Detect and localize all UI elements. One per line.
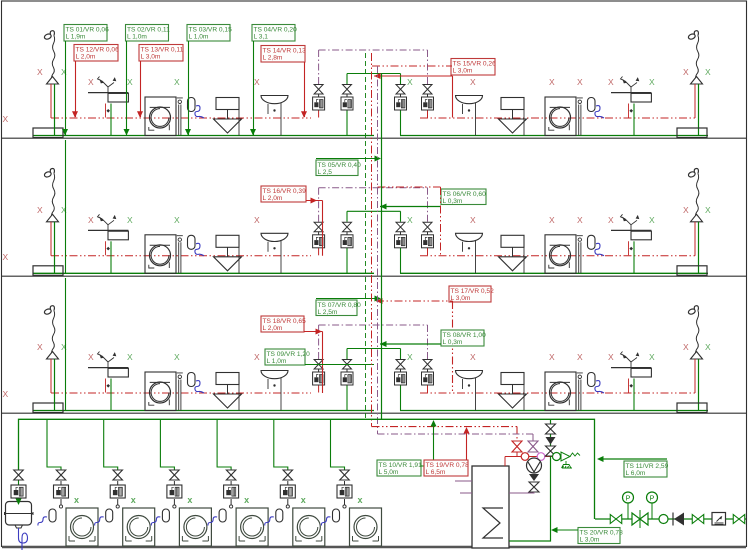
svg-text:x: x — [187, 495, 192, 505]
svg-text:X: X — [37, 342, 43, 352]
svg-text:L 5,0m: L 5,0m — [379, 469, 399, 476]
svg-text:L 6,0m: L 6,0m — [626, 470, 646, 477]
svg-text:X: X — [705, 342, 711, 352]
bathtub floor 2 right — [677, 266, 707, 276]
basement shut-off valve 4 — [226, 470, 236, 480]
basement water meter 6 — [337, 485, 352, 498]
hot water line floor 1 left (dash-dot) — [51, 117, 311, 119]
shut-off valve with water meter floor 1 right B — [422, 85, 434, 111]
valve below pump — [529, 482, 539, 492]
basement trap 2 — [106, 509, 113, 522]
basement washing machine 3 — [179, 508, 211, 546]
svg-text:X: X — [608, 215, 614, 225]
svg-text:L 2,0m: L 2,0m — [263, 325, 283, 332]
basement branch pipe 3 — [160, 419, 174, 470]
pressure gauge 1 — [627, 503, 629, 519]
basement trap 3 — [162, 509, 169, 522]
svg-text:L 1,9m: L 1,9m — [66, 34, 86, 41]
riser drop floor 3 left — [65, 278, 67, 410]
pump header line — [505, 456, 561, 458]
svg-text:X: X — [254, 215, 260, 225]
svg-text:x: x — [244, 495, 249, 505]
washing machine floor 1 right — [545, 97, 583, 136]
washing machine floor 3 left — [145, 372, 183, 411]
svg-text:TS 16/VR 0,39: TS 16/VR 0,39 — [263, 188, 307, 195]
supply shut-off valve 2 — [692, 515, 704, 524]
svg-text:X: X — [174, 352, 180, 362]
svg-text:X: X — [254, 352, 260, 362]
bathtub floor 1 left — [33, 128, 63, 138]
sink with tap floor 2 left — [88, 214, 128, 273]
svg-text:X: X — [61, 342, 67, 352]
main water meter — [712, 513, 726, 526]
basement shut-off valve 2 — [113, 470, 123, 480]
svg-text:TS 03/VR 0,15: TS 03/VR 0,15 — [189, 26, 233, 33]
label TS 20 — [578, 528, 620, 544]
svg-text:L 0,3m: L 0,3m — [443, 198, 463, 205]
svg-text:TS 05/VR 0,40: TS 05/VR 0,40 — [318, 162, 362, 169]
supply shut-off valve 3 — [733, 515, 745, 524]
washing machine floor 1 left — [145, 97, 183, 136]
label TS 07 — [316, 300, 357, 316]
label TS 01 — [64, 25, 107, 42]
svg-text:X: X — [3, 114, 9, 124]
washing machine floor 2 right — [545, 235, 583, 273]
hot water line floor 3 left (dash-dot) — [51, 392, 311, 394]
svg-text:TS 09/VR 1,20: TS 09/VR 1,20 — [267, 351, 311, 358]
cold water riser (dashed) — [365, 53, 367, 419]
WC floor 2 right — [499, 235, 527, 273]
svg-text:L 2,8m: L 2,8m — [263, 55, 283, 62]
basement trap 4 — [219, 509, 226, 522]
svg-text:P: P — [650, 495, 655, 502]
shut-off valve with water meter floor 2 right B — [422, 222, 434, 248]
circulation connector floor 3 — [319, 325, 428, 359]
cold connector floor 1 — [347, 74, 401, 85]
trap floor 2 left — [188, 235, 205, 256]
basement shut-off valve 5 — [283, 470, 293, 480]
bathtub floor 3 right — [677, 403, 707, 413]
svg-text:TS 12/VR 0,06: TS 12/VR 0,06 — [76, 46, 120, 53]
label TS 06 — [441, 189, 486, 205]
label TS 15 — [451, 59, 495, 76]
svg-text:X: X — [705, 205, 711, 215]
hot feed floor 1 right — [372, 65, 452, 67]
basement water meter 5 — [280, 485, 295, 498]
svg-text:X: X — [3, 389, 9, 399]
washbasin floor 2 right — [456, 233, 483, 273]
svg-text:X: X — [407, 215, 413, 225]
shower floor 1 left — [44, 31, 59, 136]
circulation valve — [528, 441, 538, 452]
shut-off valve with water meter floor 1 left B — [341, 85, 353, 111]
basement trap 5 — [276, 509, 283, 522]
svg-text:X: X — [127, 77, 133, 87]
cold inlet valve bottom — [546, 446, 556, 456]
meter unit bottom stubs floor 3 — [318, 385, 320, 393]
cold water main riser — [381, 74, 383, 419]
basement water meter 2 — [110, 485, 125, 498]
hot water line floor 3 right (dash-dot) — [420, 392, 695, 394]
hot supply from boiler — [372, 427, 518, 442]
WC floor 2 left — [214, 235, 242, 273]
bathtub floor 2 left — [33, 266, 63, 276]
svg-text:X: X — [407, 77, 413, 87]
boiler connections left — [455, 480, 472, 482]
svg-text:L 2,5m: L 2,5m — [318, 309, 338, 316]
svg-text:X: X — [649, 215, 655, 225]
svg-text:X: X — [88, 352, 94, 362]
svg-text:TS 19/VR 0,78: TS 19/VR 0,78 — [426, 462, 470, 469]
svg-text:X: X — [705, 67, 711, 77]
svg-text:X: X — [549, 77, 555, 87]
svg-text:X: X — [608, 352, 614, 362]
svg-text:L 2,0m: L 2,0m — [263, 195, 283, 202]
svg-text:X: X — [683, 342, 689, 352]
pressure gauge 2 — [651, 503, 653, 519]
svg-text:TS 20/VR 0,78: TS 20/VR 0,78 — [580, 529, 624, 536]
trap floor 1 right — [588, 98, 605, 119]
meter unit bottom stubs floor 1 — [318, 110, 320, 118]
WC floor 1 left — [214, 98, 242, 136]
svg-text:X: X — [127, 215, 133, 225]
washing machine floor 3 right — [545, 372, 583, 411]
bathtub floor 3 left — [33, 403, 63, 413]
WC floor 3 right — [499, 373, 527, 411]
svg-text:X: X — [37, 67, 43, 77]
svg-text:TS 04/VR 0,20: TS 04/VR 0,20 — [254, 26, 298, 33]
meter unit bottom stubs floor 2 — [318, 248, 320, 256]
svg-text:L 3,0m: L 3,0m — [141, 54, 161, 61]
circulation connector floor 2 — [319, 188, 428, 222]
floor slab line level 3 — [2, 412, 746, 414]
washbasin floor 3 left — [261, 371, 288, 411]
svg-text:X: X — [407, 352, 413, 362]
basement water meter 4 — [224, 485, 239, 498]
hot water line floor 2 left (dash-dot) — [51, 255, 311, 257]
svg-text:X: X — [174, 77, 180, 87]
svg-text:L 3,0m: L 3,0m — [453, 68, 473, 75]
pressure tank water meter — [11, 485, 26, 498]
label TS 05 — [316, 160, 358, 176]
label TS 04 — [252, 25, 295, 42]
shower floor 1 right — [688, 31, 703, 136]
check valve below pump — [529, 474, 539, 481]
basement branch pipe 2 — [104, 419, 118, 470]
svg-text:TS 08/VR 1,00: TS 08/VR 1,00 — [443, 332, 487, 339]
cold connector floor 2 — [347, 211, 401, 222]
label TS 12 — [74, 45, 118, 62]
cold water line floor 1 right — [400, 135, 708, 137]
basement shut-off valve 3 — [170, 470, 180, 480]
svg-text:X: X — [577, 77, 583, 87]
sink with tap floor 2 right — [611, 214, 651, 273]
shut-off valve with water meter floor 3 right B — [422, 360, 434, 386]
hot water line floor 2 right (dash-dot) — [420, 255, 695, 257]
supply shut-off valve 1 — [610, 515, 622, 524]
floor slab line level 2 — [2, 275, 746, 277]
svg-text:TS 13/VR 0,11: TS 13/VR 0,11 — [141, 46, 184, 53]
label TS 11 — [624, 461, 667, 477]
cold water line floor 3 right — [400, 410, 708, 412]
basement branch pipe 1 — [47, 419, 61, 470]
svg-text:X: X — [683, 67, 689, 77]
svg-text:X: X — [254, 77, 260, 87]
washbasin floor 3 right — [456, 371, 483, 411]
circulation pump — [527, 458, 542, 473]
basement trap 6 — [333, 509, 340, 522]
bathtub floor 1 right — [677, 128, 707, 138]
filter — [659, 515, 668, 524]
svg-text:X: X — [470, 77, 476, 87]
basement washing machine 4 — [236, 508, 268, 546]
label TS 02 — [126, 25, 169, 42]
washing machine floor 2 left — [145, 235, 183, 273]
shower floor 3 right — [688, 306, 703, 411]
WC floor 3 left — [214, 373, 242, 411]
svg-text:X: X — [470, 215, 476, 225]
cold water line floor 2 right — [400, 272, 708, 274]
shut-off valve with water meter floor 3 right A — [395, 360, 407, 386]
circulation connector floor 1 — [319, 50, 428, 84]
shut-off valve with water meter floor 3 left B — [341, 360, 353, 386]
pressure reducer — [632, 513, 648, 525]
basement branch pipe 4 — [217, 419, 231, 470]
svg-text:TS 18/VR 0,65: TS 18/VR 0,65 — [263, 318, 307, 325]
svg-text:X: X — [549, 352, 555, 362]
label TS 09 — [265, 349, 305, 365]
basement shut-off valve 6 — [340, 470, 350, 480]
svg-text:TS 17/VR 0,52: TS 17/VR 0,52 — [451, 288, 495, 295]
svg-text:X: X — [577, 352, 583, 362]
cold water line floor 2 left — [33, 272, 374, 274]
hot water riser (dash-dot) — [371, 53, 373, 427]
svg-text:X: X — [470, 352, 476, 362]
connection ring red — [521, 453, 529, 461]
trap floor 2 right — [588, 235, 605, 256]
hot water storage boiler — [472, 466, 509, 548]
trap floor 3 right — [588, 373, 605, 394]
svg-text:X: X — [127, 352, 133, 362]
pressure tank — [6, 502, 32, 526]
svg-text:x: x — [358, 495, 363, 505]
basement washing machine 2 — [123, 508, 155, 546]
shut-off valve with water meter floor 1 left A — [313, 85, 325, 111]
svg-text:L 1,0m: L 1,0m — [189, 34, 209, 41]
basement water meter 3 — [167, 485, 182, 498]
label TS 03 — [187, 25, 230, 42]
sink with tap floor 1 right — [611, 77, 651, 136]
svg-text:TS 11/VR 2,59: TS 11/VR 2,59 — [626, 463, 669, 470]
circulation line basement — [378, 434, 534, 441]
svg-text:TS 01/VR 0,06: TS 01/VR 0,06 — [66, 26, 110, 33]
label TS 10 — [377, 460, 421, 476]
hot feed floor 2 right — [378, 187, 441, 255]
basement trap 1 — [49, 509, 56, 522]
svg-text:L 3,0m: L 3,0m — [580, 537, 600, 544]
riser drop floor 2 left — [65, 140, 67, 273]
connection X marks floor 3 — [3, 342, 712, 399]
svg-text:X: X — [3, 252, 9, 262]
svg-text:X: X — [608, 77, 614, 87]
shut-off valve with water meter floor 2 left A — [313, 222, 325, 248]
safety valve group — [561, 452, 570, 461]
sink with tap floor 3 left — [88, 352, 128, 411]
svg-text:x: x — [301, 495, 306, 505]
cold water distribution line — [19, 419, 595, 519]
washbasin floor 1 right — [456, 96, 483, 136]
svg-text:L 1,0m: L 1,0m — [267, 358, 287, 365]
cold water line floor 3 left — [33, 410, 374, 412]
svg-text:TS 10/VR 1,91: TS 10/VR 1,91 — [379, 462, 423, 469]
svg-text:X: X — [683, 205, 689, 215]
label TS 17 — [449, 286, 491, 302]
svg-text:L 1,0m: L 1,0m — [127, 34, 147, 41]
basement washing machine 1 — [66, 508, 98, 546]
svg-text:x: x — [131, 495, 136, 505]
svg-text:L 2,5: L 2,5 — [318, 169, 333, 176]
shower floor 2 right — [688, 169, 703, 274]
cold inlet valve top — [546, 424, 556, 434]
trap floor 1 left — [188, 98, 205, 119]
svg-text:TS 02/VR 0,11: TS 02/VR 0,11 — [127, 26, 170, 33]
svg-text:TS 07/VR 0,80: TS 07/VR 0,80 — [318, 302, 362, 309]
connection X marks floor 1 — [3, 67, 712, 124]
circulation riser (dash-dot) — [377, 66, 379, 434]
label TS 18 — [261, 316, 304, 332]
shut-off valve with water meter floor 1 right A — [395, 85, 407, 111]
washbasin floor 2 left — [261, 233, 288, 273]
svg-text:X: X — [174, 215, 180, 225]
label TS 19 — [424, 460, 468, 476]
shut-off valve with water meter floor 2 right A — [395, 222, 407, 248]
basement shut-off valve 1 — [56, 470, 66, 480]
svg-text:X: X — [549, 215, 555, 225]
svg-text:X: X — [88, 77, 94, 87]
pressure tank drain trap — [19, 528, 28, 550]
washbasin floor 1 left — [261, 96, 288, 136]
sink with tap floor 3 right — [611, 352, 651, 411]
svg-text:TS 14/VR 0,13: TS 14/VR 0,13 — [263, 47, 307, 54]
cold inlet check valve — [546, 437, 556, 445]
connection ring magenta — [537, 453, 545, 461]
shower floor 2 left — [44, 169, 59, 274]
cold connector floor 3 — [347, 349, 401, 360]
sink with tap floor 1 left — [88, 77, 128, 136]
svg-text:L 2,0m: L 2,0m — [76, 54, 96, 61]
svg-text:TS 15/VR 0,26: TS 15/VR 0,26 — [453, 60, 497, 67]
WC floor 1 right — [499, 98, 527, 136]
bottom ground line — [2, 546, 746, 548]
thermostatic ring — [553, 453, 561, 461]
basement washing machine 5 — [293, 508, 325, 546]
shut-off valve with water meter floor 3 left A — [313, 360, 325, 386]
cold water line floor 1 left — [33, 135, 374, 137]
check valve (KFR) — [674, 513, 684, 526]
svg-text:L 3,0m: L 3,0m — [451, 295, 471, 302]
connection X marks floor 2 — [3, 205, 712, 262]
svg-text:X: X — [37, 205, 43, 215]
label TS 13 — [139, 45, 183, 62]
shut-off valve with water meter floor 2 left B — [341, 222, 353, 248]
svg-text:L 3,1: L 3,1 — [254, 34, 269, 41]
svg-text:TS 06/VR 0,60: TS 06/VR 0,60 — [443, 191, 487, 198]
basement water meter 1 — [54, 485, 69, 498]
floor slab line level 1 — [2, 137, 746, 139]
hot water line floor 1 right (dash-dot) — [420, 117, 695, 119]
pressure tank branch valve — [18, 470, 20, 505]
svg-text:X: X — [61, 205, 67, 215]
label TS 14 — [261, 46, 305, 63]
svg-text:X: X — [88, 215, 94, 225]
label TS 16 — [261, 186, 306, 202]
trap floor 3 left — [188, 373, 205, 394]
house supply line — [595, 518, 746, 520]
svg-text:L 6,5m: L 6,5m — [426, 469, 446, 476]
svg-text:L 0,3m: L 0,3m — [443, 339, 463, 346]
svg-text:X: X — [649, 352, 655, 362]
basement washing machine 6 — [350, 508, 382, 546]
svg-text:x: x — [74, 495, 79, 505]
svg-text:X: X — [649, 77, 655, 87]
label TS 08 — [441, 330, 484, 346]
shower floor 3 left — [44, 306, 59, 411]
svg-text:P: P — [626, 495, 631, 502]
basement branch pipe 5 — [274, 419, 288, 470]
cold inlet drop to boiler — [509, 419, 551, 541]
svg-text:X: X — [61, 67, 67, 77]
basement branch pipe 6 — [331, 419, 345, 470]
svg-text:X: X — [577, 215, 583, 225]
boiler hot outlet valve — [512, 441, 522, 452]
